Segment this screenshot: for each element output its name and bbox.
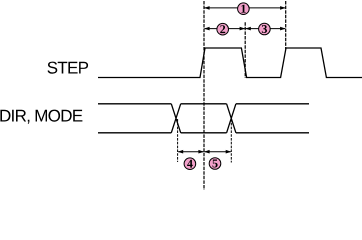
dimension arrow for param 4 (setup time) — [178, 150, 204, 154]
callout circle 2 — [217, 23, 229, 35]
dashed drop line from DIR crossover X1 — [177, 119, 179, 162]
dashed drop line from DIR crossover X2 — [230, 119, 232, 163]
STEP waveform — [98, 48, 362, 78]
dimension arrow for param 3 (STEP low time) — [245, 27, 286, 31]
DIR/MODE bus top rail — [98, 103, 309, 105]
signal label STEP — [48, 62, 89, 74]
dimension arrow for param 2 (STEP high time) — [204, 27, 245, 31]
DIR/MODE crossover X2 — [227, 104, 236, 133]
DIR/MODE bus bottom rail — [98, 132, 309, 134]
callout circle 3 — [259, 23, 271, 35]
dashed reference line at first STEP falling edge — [244, 22, 246, 78]
callout circle 1 — [238, 3, 250, 15]
DIR/MODE crossover X1 — [171, 104, 180, 133]
callout circle 5 — [209, 158, 221, 170]
dashed reference line at second STEP rising edge — [285, 1, 287, 49]
signal label DIR, MODE — [0, 110, 82, 124]
dimension arrow for param 1 (STEP period) — [204, 6, 286, 10]
dashed reference line at first STEP rising edge — [203, 1, 205, 190]
callout circle 4 — [184, 158, 196, 170]
dimension arrow for param 5 (hold time) — [204, 150, 231, 154]
